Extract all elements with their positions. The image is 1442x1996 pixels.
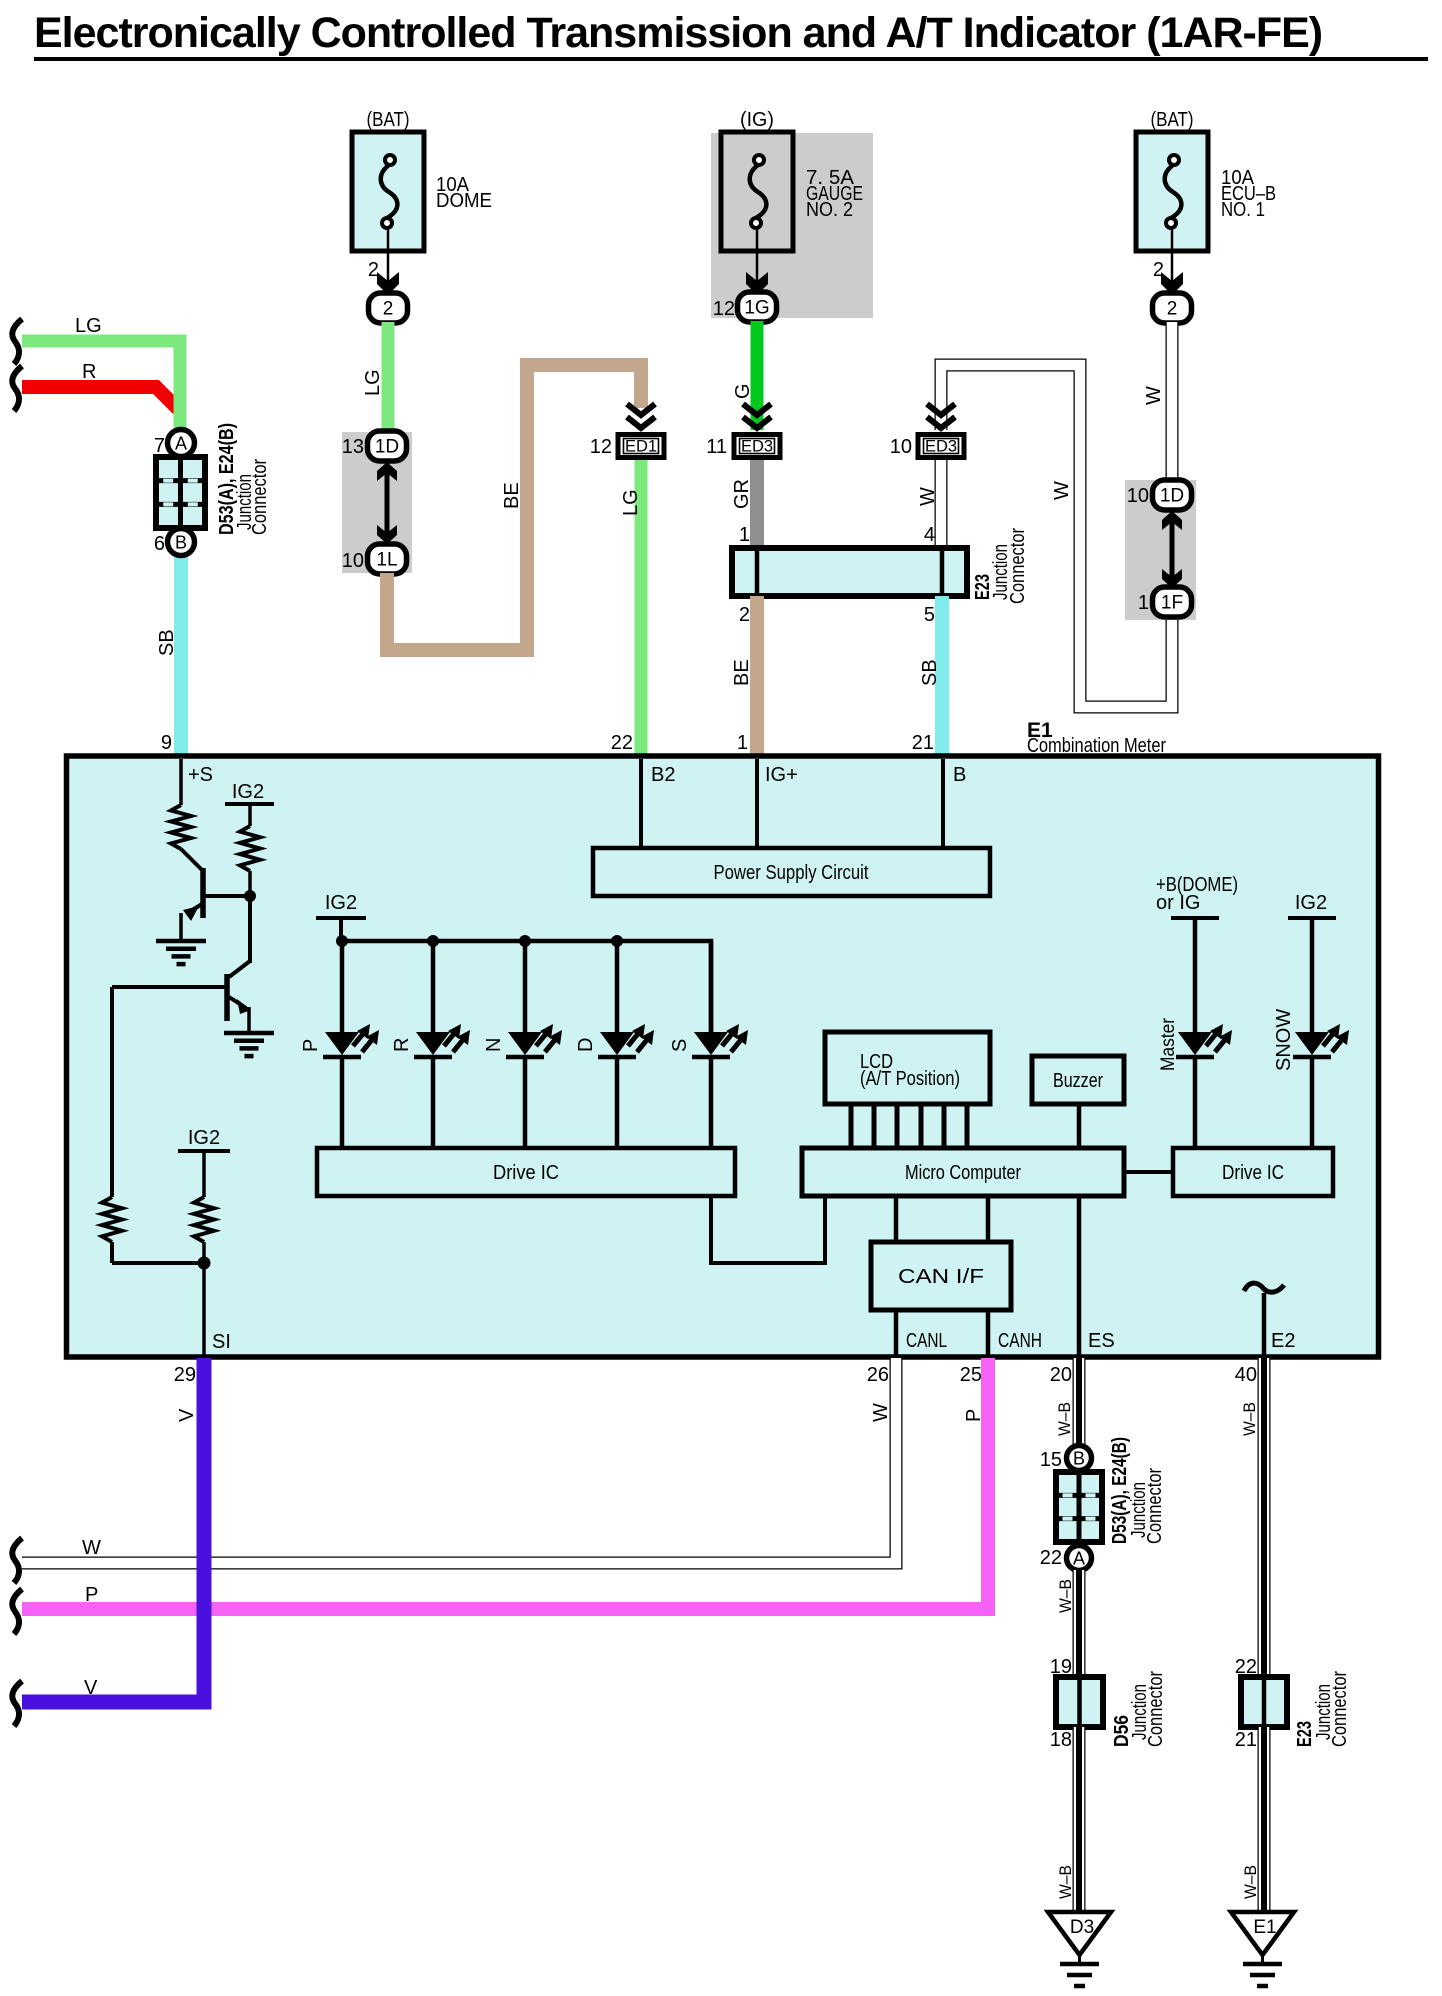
label 10 xyxy=(342,550,364,572)
terminal A (top D53) xyxy=(168,430,195,457)
arrow into terminal 1G xyxy=(746,272,768,295)
svg-text:W–B: W–B xyxy=(1241,1865,1260,1899)
label W (vertical, long route) xyxy=(1051,481,1073,500)
pass-through arrow 1D to 1F xyxy=(1162,511,1182,588)
label 13 xyxy=(342,436,364,458)
drive IC box (right) xyxy=(1173,1148,1333,1196)
label S (vertical) xyxy=(669,1039,691,1052)
label W (vertical) xyxy=(917,487,939,506)
svg-text:B: B xyxy=(953,764,966,786)
svg-text:1G: 1G xyxy=(744,298,769,319)
label 10 (1D) xyxy=(1127,485,1149,507)
LED Master xyxy=(1176,1024,1232,1057)
svg-text:Connector: Connector xyxy=(1145,1671,1167,1747)
svg-text:SNOW: SNOW xyxy=(1273,1009,1295,1071)
label 1 (E23 pin) xyxy=(739,524,750,546)
label W-B (vertical) xyxy=(1055,1402,1074,1436)
ES wire inside meter xyxy=(1077,1196,1082,1356)
svg-text:W: W xyxy=(1143,386,1165,405)
svg-text:Master: Master xyxy=(1158,1017,1179,1071)
label Junction Connector (top, vertical) xyxy=(234,459,271,535)
svg-text:4: 4 xyxy=(924,524,935,546)
label 5 (E23 pin) xyxy=(924,604,935,626)
wire W route from 1F to ED3 (10) xyxy=(941,365,1172,707)
svg-text:IG+: IG+ xyxy=(765,764,798,786)
svg-text:SB: SB xyxy=(919,659,941,686)
arrow into terminal 2 xyxy=(377,272,399,295)
svg-text:W–B: W–B xyxy=(1056,1865,1075,1899)
connector panel 1D/1L xyxy=(342,432,412,573)
svg-text:26: 26 xyxy=(867,1364,889,1386)
svg-text:(IG): (IG) xyxy=(740,109,774,131)
svg-text:W–B: W–B xyxy=(1055,1402,1074,1436)
svg-text:LG: LG xyxy=(362,369,384,396)
label 12 (1G) xyxy=(713,298,735,320)
svg-text:11: 11 xyxy=(706,436,727,458)
ground E1 xyxy=(1231,1912,1294,1986)
buzzer to micro computer wire xyxy=(1077,1104,1082,1148)
label W (vertical, CANL) xyxy=(870,1403,892,1422)
svg-text:10: 10 xyxy=(1127,485,1149,507)
svg-text:18: 18 xyxy=(1050,1729,1072,1751)
wire W from fuse to 1D xyxy=(1166,322,1179,482)
wire node to Q2 collector xyxy=(248,896,252,963)
svg-text:10: 10 xyxy=(890,436,912,458)
svg-text:W: W xyxy=(870,1403,892,1422)
wire SB from junction B to meter +S (pin 9) xyxy=(174,556,188,756)
terminal B (D53) xyxy=(1067,1446,1092,1471)
LED D xyxy=(598,1024,654,1057)
svg-text:W–B: W–B xyxy=(1056,1579,1075,1613)
svg-text:P: P xyxy=(85,1584,98,1606)
pin name ES xyxy=(1088,1330,1115,1352)
label W (vertical) xyxy=(1143,386,1165,405)
label Master (vertical) xyxy=(1158,1017,1179,1071)
svg-text:Buzzer: Buzzer xyxy=(1053,1070,1103,1092)
connector ED3 (10) xyxy=(918,435,964,458)
svg-text:SI: SI xyxy=(212,1331,231,1353)
label 7 xyxy=(154,435,165,457)
svg-text:D: D xyxy=(575,1038,597,1052)
svg-text:22: 22 xyxy=(1040,1547,1062,1569)
svg-text:BE: BE xyxy=(501,482,523,509)
svg-text:NO. 1: NO. 1 xyxy=(1221,199,1265,221)
svg-text:1D: 1D xyxy=(375,437,399,458)
IG2 supply bar 2 xyxy=(178,1151,230,1197)
wire drive IC to micro computer xyxy=(711,1196,825,1263)
svg-text:W: W xyxy=(82,1537,101,1559)
svg-text:GR: GR xyxy=(731,479,753,509)
terminal A (D53) xyxy=(1067,1546,1092,1571)
label SB (vertical) xyxy=(156,629,178,656)
wire W from ED3 to E23 pin 4 xyxy=(935,460,948,548)
svg-text:NO. 2: NO. 2 xyxy=(806,199,853,221)
pin name B xyxy=(953,764,966,786)
pin name +S xyxy=(188,764,213,786)
svg-text:SB: SB xyxy=(156,629,178,656)
svg-text:Drive IC: Drive IC xyxy=(1222,1162,1284,1184)
terminal 2 (ECU-B) xyxy=(1153,293,1192,323)
label 18 xyxy=(1050,1729,1072,1751)
continuation brace R xyxy=(12,366,22,411)
ground (Q2 emitter) xyxy=(224,1033,274,1056)
SNOW LED wire xyxy=(1310,920,1315,1148)
wire W from CANL xyxy=(22,1358,896,1563)
label 21 (E23) xyxy=(1235,1729,1257,1751)
svg-text:N: N xyxy=(483,1038,505,1052)
terminal 1F xyxy=(1153,587,1192,617)
label +B(DOME) or IG xyxy=(1156,874,1238,914)
label BE (vertical) xyxy=(501,482,523,509)
label 19 xyxy=(1050,1656,1072,1678)
label Junction Connector (E23) xyxy=(990,528,1029,604)
node dots on bus xyxy=(336,935,623,947)
label N (vertical) xyxy=(483,1038,505,1052)
chevron arrow into ED3 (11) xyxy=(743,404,771,428)
svg-text:P: P xyxy=(963,1409,985,1422)
svg-text:ES: ES xyxy=(1088,1330,1115,1352)
svg-text:R: R xyxy=(391,1038,413,1052)
pin 9 xyxy=(161,732,172,754)
label LG xyxy=(75,315,102,337)
svg-text:40: 40 xyxy=(1235,1364,1257,1386)
label D56 (vertical bold) xyxy=(1111,1715,1133,1747)
pin name B2 xyxy=(651,764,675,786)
LED R xyxy=(414,1024,470,1057)
svg-text:1F: 1F xyxy=(1161,593,1183,614)
fuse 7.5A GAUGE NO.2 xyxy=(721,109,863,292)
label GR (vertical) xyxy=(731,479,753,509)
label Junction Connector (D56, vertical) xyxy=(1129,1671,1167,1747)
svg-text:DOME: DOME xyxy=(436,190,492,212)
svg-text:Drive IC: Drive IC xyxy=(493,1162,559,1184)
label SB (vertical) xyxy=(919,659,941,686)
wire node to SI pin xyxy=(202,1263,206,1356)
svg-text:Connector: Connector xyxy=(1329,1671,1351,1747)
arrow into terminal 2 xyxy=(1161,272,1183,295)
label W xyxy=(82,1537,101,1559)
label W-B (vertical) xyxy=(1056,1865,1075,1899)
buzzer box xyxy=(1032,1056,1124,1104)
pin 21 xyxy=(912,732,934,754)
pin 1 xyxy=(737,732,748,754)
svg-text:LG: LG xyxy=(620,489,642,516)
wire BE from 1L to ED1 xyxy=(387,365,641,650)
label D53(A), E24(B) (top, vertical bold) xyxy=(216,423,238,535)
resistor R2 (IG2) xyxy=(240,826,260,871)
svg-text:R: R xyxy=(82,361,96,383)
svg-text:ED3: ED3 xyxy=(741,438,773,456)
label E23 (vertical bold) xyxy=(972,574,994,600)
svg-text:5: 5 xyxy=(924,604,935,626)
wire +S to resistor xyxy=(179,759,183,805)
svg-text:E2: E2 xyxy=(1271,1330,1295,1352)
label LG (vertical) xyxy=(620,489,642,516)
node (base junction dot) xyxy=(244,871,256,902)
ground (Q1 emitter) xyxy=(156,941,206,964)
pin name CANL xyxy=(906,1330,947,1352)
svg-text:IG2: IG2 xyxy=(188,1127,220,1149)
svg-text:Power Supply Circuit: Power Supply Circuit xyxy=(714,862,869,884)
label P xyxy=(85,1584,98,1606)
svg-text:21: 21 xyxy=(1235,1729,1257,1751)
label BE (vertical) xyxy=(731,659,753,686)
junction connector E23 (lower) xyxy=(1241,1677,1287,1727)
pin 2 label (DOME fuse) xyxy=(368,259,379,281)
CAN I/F box xyxy=(871,1242,1011,1310)
continuation brace P xyxy=(12,1589,22,1634)
resistor R3 xyxy=(102,1197,122,1242)
label V xyxy=(84,1677,98,1699)
continuation brace V xyxy=(12,1681,22,1726)
continuation brace LG xyxy=(12,319,22,364)
transistor Q1 xyxy=(181,849,249,940)
svg-text:or IG: or IG xyxy=(1156,892,1200,914)
terminal 1D (right) xyxy=(1153,480,1192,510)
label 2 (E23 pin) xyxy=(739,604,750,626)
svg-text:A: A xyxy=(175,434,187,454)
svg-text:10: 10 xyxy=(342,550,364,572)
svg-text:(BAT): (BAT) xyxy=(1151,109,1194,131)
label 1 (1F) xyxy=(1138,592,1149,614)
gray panel (GAUGE fuse) xyxy=(711,133,873,318)
wire W-B from A to D56 xyxy=(1073,1570,1086,1677)
wire GR from ED3 to E23 junction xyxy=(750,460,764,548)
label P (vertical, CANH) xyxy=(963,1409,985,1422)
label V (vertical) xyxy=(176,1408,198,1422)
svg-text:1L: 1L xyxy=(376,550,397,571)
label P (vertical) xyxy=(300,1039,322,1052)
svg-text:6: 6 xyxy=(154,533,165,555)
svg-text:12: 12 xyxy=(590,436,612,458)
svg-text:CANL: CANL xyxy=(906,1330,947,1352)
svg-text:B2: B2 xyxy=(651,764,675,786)
LED S xyxy=(692,1024,748,1057)
svg-text:Electronically Controlled Tran: Electronically Controlled Transmission a… xyxy=(34,9,1322,57)
svg-text:1: 1 xyxy=(739,524,750,546)
svg-text:1: 1 xyxy=(737,732,748,754)
pin 22 xyxy=(611,732,633,754)
connector ED3 (11) xyxy=(734,435,780,458)
pin 2 label (ECU-B fuse) xyxy=(1153,259,1164,281)
label IG2 (SNOW) xyxy=(1295,892,1327,914)
wire W-B from E23 to ground E1 xyxy=(1258,1727,1271,1912)
svg-text:21: 21 xyxy=(912,732,934,754)
svg-text:29: 29 xyxy=(174,1364,196,1386)
svg-text:IG2: IG2 xyxy=(1295,892,1327,914)
svg-text:W: W xyxy=(917,487,939,506)
svg-text:15: 15 xyxy=(1040,1449,1062,1471)
Master LED wire xyxy=(1193,920,1198,1148)
svg-text:Connector: Connector xyxy=(249,459,271,535)
pin 40 xyxy=(1235,1364,1257,1386)
combination meter E1 box xyxy=(67,756,1379,1357)
terminal 1L xyxy=(368,544,407,574)
svg-text:9: 9 xyxy=(161,732,172,754)
svg-text:G: G xyxy=(732,383,754,399)
label IG2 (first) xyxy=(232,781,264,803)
pin 20 xyxy=(1050,1364,1072,1386)
terminal 2 (DOME) xyxy=(369,293,408,323)
svg-text:BE: BE xyxy=(731,659,753,686)
LED column wires xyxy=(342,941,711,1148)
svg-text:2: 2 xyxy=(383,299,394,320)
pin name CANH xyxy=(998,1330,1042,1352)
label R (vertical) xyxy=(391,1038,413,1052)
IG2 supply bar 4 xyxy=(1288,916,1336,920)
label 11 xyxy=(706,436,727,458)
svg-text:W: W xyxy=(1051,481,1073,500)
label E1 Combination Meter xyxy=(1027,719,1166,757)
svg-text:A: A xyxy=(1073,1549,1085,1569)
label 22 (E23) xyxy=(1235,1656,1257,1678)
svg-text:W–B: W–B xyxy=(1240,1402,1259,1436)
supply bar +B(DOME) xyxy=(1171,916,1219,920)
E2 wire with coil inside meter xyxy=(1244,1283,1284,1356)
junction connector D53(A),E24(B) top xyxy=(156,457,205,528)
connector ED1 xyxy=(618,435,664,458)
wire LG from ED1 to meter B2 xyxy=(635,460,648,756)
drive IC box (left) xyxy=(317,1148,735,1196)
label 6 xyxy=(154,533,165,555)
terminal 1D (instrument panel) xyxy=(368,431,407,461)
svg-text:+S: +S xyxy=(188,764,213,786)
svg-text:Micro Computer: Micro Computer xyxy=(905,1162,1021,1184)
pin name SI xyxy=(212,1331,231,1353)
junction connector D53(A),E24(B) lower xyxy=(1056,1472,1102,1542)
label R xyxy=(82,361,96,383)
svg-text:2: 2 xyxy=(1167,299,1178,320)
svg-text:B: B xyxy=(1073,1449,1085,1469)
svg-text:V: V xyxy=(84,1677,98,1699)
label D (vertical) xyxy=(575,1038,597,1052)
fuse 10A ECU-B NO.1 xyxy=(1136,109,1276,292)
svg-text:CANH: CANH xyxy=(998,1330,1042,1352)
label W-B (vertical) xyxy=(1056,1579,1075,1613)
title xyxy=(34,9,1428,61)
label 12 xyxy=(590,436,612,458)
LED SNOW xyxy=(1293,1024,1349,1057)
pin 26 xyxy=(867,1364,889,1386)
svg-text:12: 12 xyxy=(713,298,735,320)
IG2 supply bar 1 xyxy=(225,804,274,826)
CANL wire inside meter xyxy=(894,1310,899,1356)
svg-text:2: 2 xyxy=(739,604,750,626)
wire W-B from D56 to ground D3 xyxy=(1073,1727,1086,1912)
chevron arrow into ED3 (10) xyxy=(927,404,955,428)
svg-text:LG: LG xyxy=(75,315,102,337)
svg-text:P: P xyxy=(300,1039,322,1052)
wire B2 to power supply xyxy=(639,759,643,848)
power supply circuit box xyxy=(593,848,990,896)
label D53(A), E24(B) (vertical bold) xyxy=(1109,1437,1131,1544)
LCD to micro computer wires xyxy=(851,1104,967,1148)
wire Q2 base to resistor R3 xyxy=(110,987,114,1197)
label E23 (vertical bold, lower) xyxy=(1294,1721,1316,1747)
svg-text:E1: E1 xyxy=(1253,1917,1276,1938)
resistor R4 (IG2-SI) xyxy=(194,1197,214,1242)
label G (vertical) xyxy=(732,383,754,399)
svg-text:ED3: ED3 xyxy=(925,438,957,456)
svg-text:Connector: Connector xyxy=(1144,1468,1166,1544)
svg-text:22: 22 xyxy=(611,732,633,754)
svg-text:IG2: IG2 xyxy=(232,781,264,803)
LED N xyxy=(506,1024,562,1057)
label Junction Connector (vertical) xyxy=(1128,1468,1166,1544)
pass-through arrow 1D to 1L xyxy=(377,462,397,544)
svg-text:B: B xyxy=(175,533,187,553)
connector panel 1D/1F xyxy=(1125,480,1196,620)
svg-text:CAN I/F: CAN I/F xyxy=(898,1266,984,1288)
wire R (red) merging down to junction A xyxy=(22,341,180,430)
terminal B (top D53) xyxy=(168,529,195,556)
svg-text:20: 20 xyxy=(1050,1364,1072,1386)
svg-text:25: 25 xyxy=(960,1364,982,1386)
label W-B (vertical) xyxy=(1240,1402,1259,1436)
label 4 (E23 pin) xyxy=(924,524,935,546)
wire micro computer to drive IC (right) xyxy=(1124,1170,1173,1174)
ground D3 xyxy=(1048,1912,1111,1986)
pin 29 xyxy=(174,1364,196,1386)
label IG2 (LED bus) xyxy=(325,892,357,914)
micro computer to CAN I/F wires xyxy=(896,1196,988,1242)
wire SB from E23 to meter B xyxy=(935,596,949,756)
wire V from SI xyxy=(22,1358,204,1702)
LED supply bus xyxy=(341,941,711,1032)
node SI junction dot xyxy=(112,1242,211,1270)
svg-text:13: 13 xyxy=(342,436,364,458)
CANH wire inside meter xyxy=(986,1310,991,1356)
wire W-B from E2 to E23 xyxy=(1258,1358,1271,1677)
label 22 xyxy=(1040,1547,1062,1569)
svg-text:(BAT): (BAT) xyxy=(367,109,410,131)
transistor Q2 xyxy=(112,961,251,1032)
svg-text:1D: 1D xyxy=(1160,486,1184,507)
pin name E2 xyxy=(1271,1330,1295,1352)
svg-text:(A/T Position): (A/T Position) xyxy=(860,1068,960,1090)
LED P xyxy=(323,1024,379,1057)
svg-text:ED1: ED1 xyxy=(625,438,657,456)
svg-text:Connector: Connector xyxy=(1007,528,1029,604)
wire B to power supply xyxy=(941,759,945,848)
pin 25 xyxy=(960,1364,982,1386)
wire LG from brace to junction A xyxy=(22,341,180,430)
terminal 1G xyxy=(738,292,777,322)
wire LG fuse to 1D xyxy=(382,322,395,432)
svg-text:7: 7 xyxy=(154,435,165,457)
label SNOW (vertical) xyxy=(1273,1009,1295,1071)
svg-text:S: S xyxy=(669,1039,691,1052)
wire IG+ to power supply xyxy=(755,759,759,848)
IG2 supply bar 3 xyxy=(316,918,366,941)
svg-text:IG2: IG2 xyxy=(325,892,357,914)
fuse 10A DOME xyxy=(352,109,492,292)
continuation brace W xyxy=(12,1538,22,1583)
wire W-B from ES to junction B xyxy=(1073,1358,1086,1446)
svg-text:1: 1 xyxy=(1138,592,1149,614)
junction connector D56 xyxy=(1056,1677,1103,1727)
svg-text:V: V xyxy=(176,1408,198,1422)
chevron arrow into ED1 xyxy=(627,404,655,428)
LCD (A/T Position) box xyxy=(825,1032,990,1104)
label LG (vertical) xyxy=(362,369,384,396)
micro computer box xyxy=(802,1148,1124,1196)
wire P from CANH xyxy=(22,1358,988,1609)
label 15 xyxy=(1040,1449,1062,1471)
junction connector E23 xyxy=(732,548,967,596)
resistor R1 (+S) xyxy=(171,805,191,849)
label W-B (vertical) xyxy=(1241,1865,1260,1899)
